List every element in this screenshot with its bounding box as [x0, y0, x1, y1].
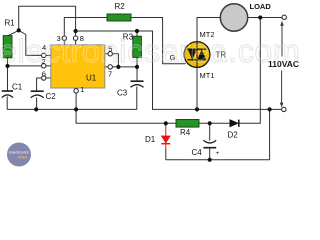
- logo Electronics Area: [7, 143, 31, 167]
- wire bottom rail: [166, 159, 270, 161]
- resistor R3: [133, 36, 142, 57]
- resistor R1: [3, 36, 12, 58]
- diode D2: [230, 120, 239, 127]
- svg-text:+: +: [216, 150, 220, 157]
- 110VAC arrow down: [280, 71, 284, 108]
- svg-text:electronicsarea.com: electronicsarea.com: [0, 33, 300, 69]
- capacitor C1: [2, 91, 13, 98]
- svg-text:Area: Area: [16, 155, 27, 160]
- wire pin4 branch: [19, 30, 42, 55]
- svg-text:1: 1: [80, 85, 84, 94]
- svg-text:U1: U1: [86, 74, 97, 83]
- wire common rail left: [7, 108, 137, 110]
- resistor R4: [176, 120, 199, 128]
- wire C2 top lead to pin6: [37, 78, 42, 91]
- svg-text:R2: R2: [115, 2, 126, 11]
- wire C3 bottom lead: [136, 87, 138, 110]
- resistor R2: [107, 14, 131, 21]
- svg-text:C2: C2: [46, 92, 57, 101]
- wire pin8 stubs: [75, 31, 77, 45]
- svg-text:7: 7: [108, 69, 112, 78]
- wire R3 bottom / C3 top leads: [136, 57, 138, 81]
- svg-text:R4: R4: [180, 128, 191, 137]
- svg-text:R1: R1: [5, 19, 16, 28]
- wire pin5 join to pin7: [105, 54, 119, 67]
- wire triac MT1 lead: [196, 67, 198, 109]
- svg-text:MT1: MT1: [200, 71, 215, 80]
- IC U1: [51, 45, 105, 88]
- wire R1 bottom to C1 top with pin2 tap: [8, 58, 51, 91]
- capacitor C3: [131, 81, 144, 87]
- svg-text:D2: D2: [228, 131, 239, 140]
- wire pin6 stub: [46, 77, 51, 79]
- pin number labels: [42, 34, 113, 94]
- wire terminal2 drop to bottom rail: [269, 109, 271, 159]
- wire C1 bottom lead: [6, 96, 8, 109]
- wire pin3 to R2 left: [64, 18, 107, 45]
- wire bus pin8 junction to R3 top then down to right rail and terminal 2: [76, 31, 282, 109]
- wire C2 bottom lead: [36, 97, 38, 109]
- svg-text:6: 6: [42, 70, 46, 79]
- wire LOAD to terminal 1: [248, 17, 283, 19]
- svg-text:D1: D1: [145, 135, 156, 144]
- svg-text:C3: C3: [117, 89, 128, 98]
- wire top rail (R1 junction to pin8 junction): [19, 6, 76, 31]
- wire pin1 lead and jog to mid rail: [76, 88, 166, 123]
- capacitor C2: [31, 91, 44, 98]
- wire LOAD junction drop to D2 cathode: [239, 18, 260, 124]
- capacitor C4 (polarized, curved plate on top): [203, 140, 216, 148]
- wire triac MT2 up to LOAD: [197, 18, 220, 42]
- terminal 2: [282, 107, 286, 111]
- wire D1 bottom lead (grey part): [165, 150, 167, 160]
- wire R2 right to triac gate: [131, 18, 186, 64]
- diode D1 (red): [161, 124, 170, 151]
- triac TR: [184, 42, 210, 68]
- wire pin7 to R3 bottom junction: [105, 66, 137, 68]
- wire C4 leads: [209, 123, 211, 160]
- wire pin4 stub: [46, 54, 51, 56]
- svg-text:LOAD: LOAD: [250, 2, 272, 11]
- 110VAC arrow up: [280, 21, 284, 57]
- load circle: [220, 4, 247, 31]
- wire R3 top lead: [136, 31, 138, 36]
- svg-text:C1: C1: [12, 83, 23, 92]
- wire mid rail R4 leads: [166, 122, 230, 124]
- pin circles: [42, 36, 113, 93]
- terminal 1: [282, 15, 286, 19]
- wire R1 top diagonal: [8, 30, 19, 35]
- svg-text:C4: C4: [192, 148, 203, 157]
